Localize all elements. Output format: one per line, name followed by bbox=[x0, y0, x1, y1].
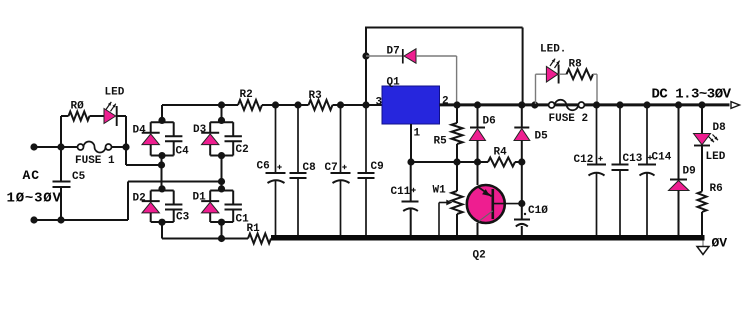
svg-text:AC: AC bbox=[23, 168, 40, 183]
pin 3 label bbox=[376, 96, 383, 108]
capacitor C13 bbox=[612, 101, 643, 236]
wire R4 to D5 line bbox=[515, 158, 525, 165]
diode D5 bbox=[514, 101, 548, 219]
wire R8 down bbox=[593, 74, 597, 104]
resistor R6 bbox=[698, 146, 723, 236]
resistor R2 bbox=[238, 89, 262, 110]
node Q2 base bbox=[518, 200, 525, 207]
svg-text:Q1: Q1 bbox=[387, 77, 401, 89]
ground rail 0V bbox=[271, 235, 705, 241]
capacitor C14 bbox=[638, 101, 672, 236]
diode D4 with capacitor C4 (bridge top-left) bbox=[133, 105, 190, 159]
wire R0 to LED bbox=[90, 115, 105, 117]
wire bridge right vertical bbox=[221, 156, 223, 191]
wire pin1 bbox=[407, 124, 414, 166]
svg-text:C11: C11 bbox=[391, 186, 411, 198]
svg-text:D5: D5 bbox=[535, 131, 549, 143]
svg-text:C5: C5 bbox=[72, 171, 86, 183]
wire fuse junction to bridge bbox=[126, 161, 165, 168]
capacitor C9 bbox=[358, 101, 384, 236]
svg-text:RØ: RØ bbox=[71, 101, 85, 113]
label AC 10~30V bbox=[7, 168, 62, 206]
wire bridge left vertical bbox=[161, 156, 163, 191]
capacitor C12 bbox=[574, 101, 607, 236]
resistor R5 bbox=[434, 101, 463, 162]
capacitor C8 bbox=[290, 101, 317, 236]
svg-text:D2: D2 bbox=[133, 193, 146, 205]
LED indicator D8 bbox=[694, 101, 727, 163]
svg-text:R3: R3 bbox=[309, 90, 323, 102]
resistor R1 bbox=[247, 223, 272, 244]
svg-text:C3: C3 bbox=[176, 212, 190, 224]
fuse FUSE1 bbox=[61, 142, 126, 167]
LED indicator D-led1 bbox=[104, 87, 125, 127]
svg-text:R6: R6 bbox=[710, 183, 723, 195]
capacitor C6 bbox=[257, 101, 286, 236]
transistor Q2 bbox=[467, 185, 522, 262]
wire LED2 branch bbox=[536, 74, 547, 104]
svg-text:C7: C7 bbox=[325, 162, 338, 174]
svg-text:R2: R2 bbox=[240, 89, 253, 101]
resistor R8 bbox=[559, 59, 593, 80]
wire Q2 emitter to ground bbox=[477, 223, 479, 236]
svg-text:LED: LED bbox=[105, 87, 125, 99]
svg-text:D7: D7 bbox=[387, 46, 400, 58]
svg-text:1: 1 bbox=[414, 127, 421, 139]
svg-text:DC 1.3~3ØV: DC 1.3~3ØV bbox=[652, 86, 732, 102]
junction fuse2 left bbox=[531, 101, 538, 108]
fuse FUSE2 bbox=[549, 100, 589, 125]
wire rail segment B bbox=[262, 104, 309, 106]
svg-text:C14: C14 bbox=[652, 152, 672, 164]
capacitor C11 bbox=[391, 162, 419, 236]
wire D6 node to Q2 collector bbox=[477, 162, 479, 185]
svg-text:D6: D6 bbox=[483, 116, 496, 128]
wire AC2 return bbox=[34, 178, 225, 220]
svg-text:FUSE 2: FUSE 2 bbox=[549, 113, 589, 125]
resistor R0 bbox=[69, 101, 90, 121]
wire left vertical node bbox=[57, 116, 64, 224]
wire output rail bbox=[440, 103, 730, 106]
output arrow DC bbox=[652, 86, 740, 108]
svg-text:LED.: LED. bbox=[540, 44, 566, 56]
svg-text:C6: C6 bbox=[257, 161, 270, 173]
potentiometer W1 bbox=[433, 162, 463, 236]
capacitor C10 bbox=[514, 205, 548, 236]
svg-text:R5: R5 bbox=[434, 136, 448, 148]
junction bridge bottom bbox=[218, 235, 225, 242]
svg-text:R1: R1 bbox=[247, 223, 261, 235]
wire bridge bottom bbox=[162, 238, 248, 240]
LED indicator D-led2 bbox=[540, 44, 566, 84]
capacitor C7 bbox=[325, 101, 351, 236]
svg-text:FUSE 1: FUSE 1 bbox=[75, 155, 115, 167]
svg-text:LED: LED bbox=[706, 151, 726, 163]
svg-text:1Ø~3ØV: 1Ø~3ØV bbox=[7, 190, 62, 206]
svg-text:C4: C4 bbox=[176, 146, 190, 158]
resistor R3 bbox=[309, 90, 333, 110]
svg-text:D9: D9 bbox=[683, 166, 696, 178]
diode D7 bbox=[366, 46, 416, 64]
wire LED to corner bbox=[117, 116, 126, 165]
AC input terminal top bbox=[30, 143, 61, 150]
svg-text:ØV: ØV bbox=[712, 236, 728, 251]
diode D2 with capacitor C3 (bridge bottom-left) bbox=[133, 185, 190, 238]
wire D7 to pin2 node bbox=[416, 56, 457, 104]
wire rail segment C bbox=[333, 104, 383, 106]
wire to R0 bbox=[61, 115, 69, 117]
svg-text:D4: D4 bbox=[133, 125, 147, 137]
AC input terminal bottom bbox=[30, 216, 61, 223]
svg-text:C1Ø: C1Ø bbox=[528, 205, 548, 217]
svg-text:D1: D1 bbox=[193, 192, 207, 204]
capacitor C5 bbox=[53, 171, 86, 220]
ground symbol bbox=[697, 236, 727, 255]
svg-text:C13: C13 bbox=[623, 153, 643, 165]
svg-text:3: 3 bbox=[376, 96, 383, 108]
svg-text:W1: W1 bbox=[433, 185, 447, 197]
diode D1 with capacitor C1 (bridge bottom-right) bbox=[193, 185, 250, 238]
diode D9 bbox=[669, 101, 696, 236]
pin 2 label bbox=[442, 96, 449, 108]
wire top loop bbox=[365, 28, 523, 106]
junction fuse1 right bbox=[122, 143, 129, 150]
resistor R4 bbox=[488, 147, 515, 167]
diode D6 bbox=[470, 101, 496, 162]
wire adj node bbox=[411, 158, 488, 165]
svg-text:C2: C2 bbox=[236, 144, 249, 156]
diode D3 with capacitor C2 (bridge top-right) bbox=[193, 105, 249, 159]
svg-text:D3: D3 bbox=[193, 124, 207, 136]
node D7 tap bbox=[362, 52, 369, 59]
svg-text:C8: C8 bbox=[303, 162, 317, 174]
svg-text:D8: D8 bbox=[713, 122, 727, 134]
op-amp regulator U/Q1 body bbox=[382, 77, 440, 124]
svg-text:R4: R4 bbox=[494, 147, 508, 159]
svg-text:C9: C9 bbox=[371, 161, 384, 173]
svg-text:C12: C12 bbox=[574, 154, 594, 166]
svg-text:Q2: Q2 bbox=[473, 250, 486, 262]
svg-text:R8: R8 bbox=[569, 59, 583, 71]
wire rail segment A bbox=[218, 101, 238, 108]
wire bridge top to rail bbox=[162, 104, 222, 106]
pin 1 label bbox=[414, 127, 421, 139]
